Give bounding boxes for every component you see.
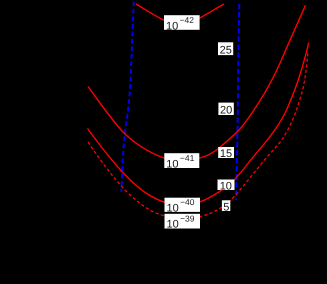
label box 15 xyxy=(218,147,234,160)
red contour 10^-40 xyxy=(88,43,309,205)
svg-text:−42: −42 xyxy=(180,15,195,25)
svg-text:25: 25 xyxy=(220,45,232,57)
svg-text:10: 10 xyxy=(166,20,178,32)
red dashed contour 10^-39 xyxy=(88,53,308,218)
svg-text:−39: −39 xyxy=(180,214,195,224)
svg-text:5: 5 xyxy=(223,201,229,213)
label box 10 xyxy=(218,180,235,193)
label box 10^-41 xyxy=(164,153,199,170)
svg-text:15: 15 xyxy=(220,148,232,160)
svg-text:−41: −41 xyxy=(180,153,195,163)
label box 10^-39 xyxy=(165,214,201,231)
svg-text:10: 10 xyxy=(166,158,178,170)
blue dashed contour A (left, near-vertical) xyxy=(121,2,133,193)
svg-text:−40: −40 xyxy=(180,197,195,207)
red contour 10^-41 xyxy=(88,5,306,161)
svg-text:20: 20 xyxy=(220,105,232,117)
label box 25 xyxy=(218,42,233,56)
label box 10^-42 xyxy=(164,15,200,32)
label box 20 xyxy=(218,103,233,117)
blue dashed contour B (right, near-vertical) xyxy=(236,4,239,200)
red contour 10^-42 (top curve) xyxy=(136,4,224,24)
svg-text:10: 10 xyxy=(167,219,179,231)
label box 10^-40 xyxy=(165,197,201,214)
svg-text:10: 10 xyxy=(220,180,232,192)
label box 5 xyxy=(222,200,230,213)
svg-text:10: 10 xyxy=(167,202,179,214)
